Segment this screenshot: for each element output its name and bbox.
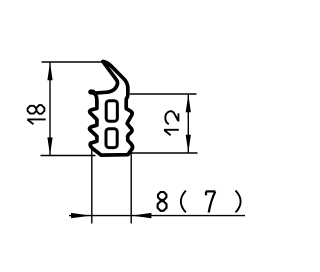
dim 18: dimension line — [49, 62, 51, 156]
dim 8(7) label: digit 7 — [206, 191, 215, 212]
dim 8(7) label: close paren — [236, 191, 241, 213]
dim 12: arrow down — [186, 135, 191, 153]
upper hole — [106, 101, 117, 122]
dim 12: arrow up — [186, 94, 191, 112]
dim 18: arrow up — [47, 62, 52, 80]
dim 12 label: digit 2 (rotated) — [165, 111, 178, 124]
dim 18 label: digit 8 (rotated) — [28, 105, 45, 114]
dim 18: arrow down — [47, 137, 52, 155]
dim 8(7): arrow right-pointing — [71, 213, 91, 218]
dim 8(7) label: open paren — [181, 191, 186, 213]
dim 8(7) label: digit 8 — [158, 192, 167, 211]
top-left bump of profile — [91, 89, 93, 94]
lower hole — [106, 129, 117, 148]
dim 8(7): extension line right — [130, 150, 132, 224]
dim 12: extension line top — [130, 93, 197, 95]
dim 18 label: digit 1 (rotated) — [27, 119, 46, 124]
seal profile body outline with top sealing fin — [90, 61, 133, 155]
dim 8(7): dimension line — [69, 215, 245, 217]
dim 12: extension line bottom — [131, 152, 198, 154]
dim 8(7): arrow left-pointing — [131, 213, 151, 218]
dim 12: dimension line — [187, 94, 189, 153]
dim 8(7): extension line left — [91, 148, 93, 223]
dim 12 label: digit 1 (rotated) — [164, 130, 179, 135]
dim 18: extension line top — [42, 61, 104, 63]
dim 18: extension line bottom — [41, 155, 96, 157]
